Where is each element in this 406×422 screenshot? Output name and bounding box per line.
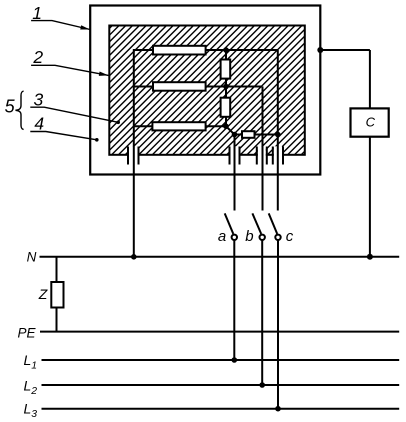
svg-text:C: C [366, 115, 376, 130]
svg-text:Z: Z [38, 286, 48, 302]
svg-text:5: 5 [5, 96, 16, 116]
svg-text:2: 2 [32, 47, 43, 67]
svg-text:a: a [218, 228, 226, 245]
svg-text:c: c [286, 228, 294, 245]
svg-text:N: N [27, 249, 37, 264]
svg-text:1: 1 [32, 3, 42, 23]
svg-text:4: 4 [34, 113, 44, 133]
svg-text:PE: PE [17, 326, 36, 341]
svg-text:3: 3 [34, 90, 44, 110]
svg-text:b: b [245, 228, 253, 245]
